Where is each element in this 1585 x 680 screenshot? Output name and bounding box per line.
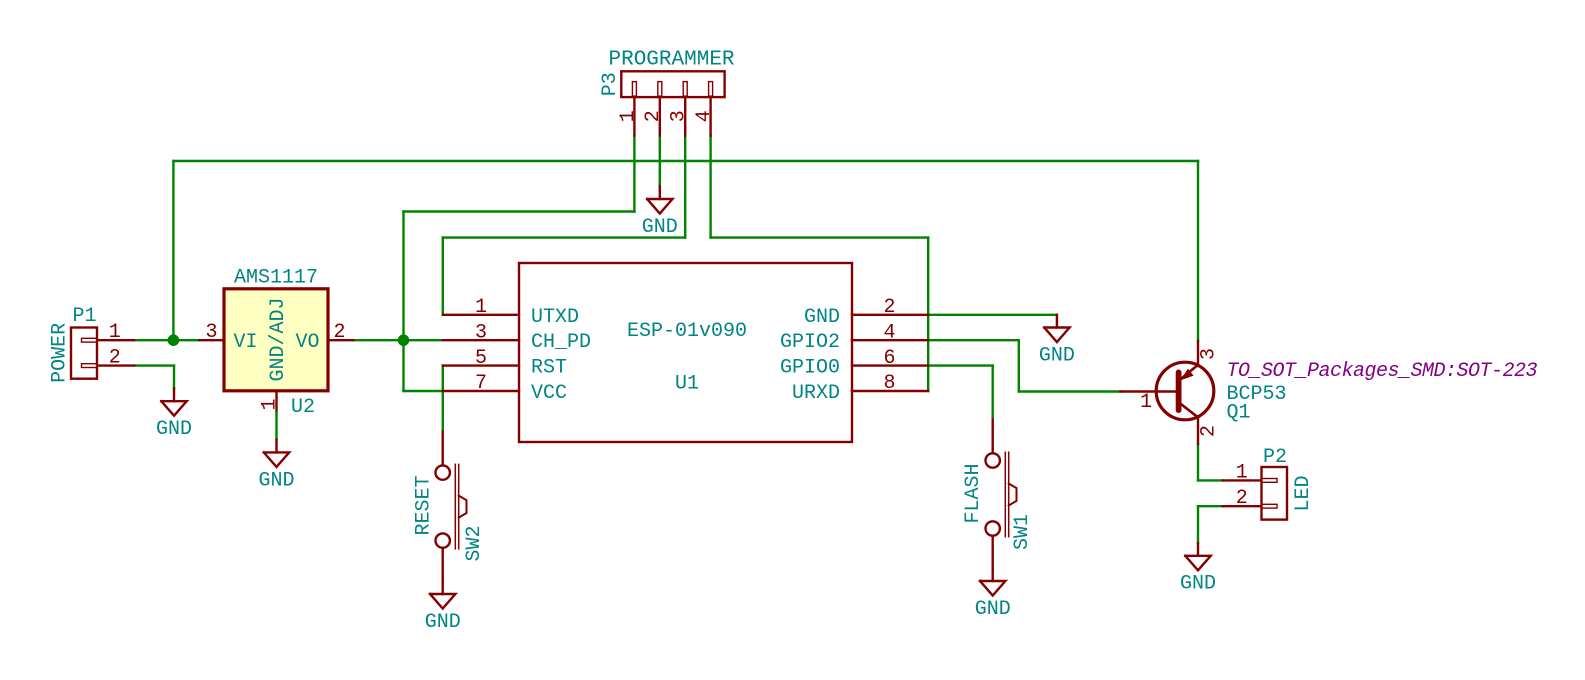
svg-text:4: 4	[693, 110, 716, 122]
svg-text:2: 2	[333, 321, 345, 344]
svg-text:FLASH: FLASH	[962, 463, 985, 523]
svg-text:VO: VO	[295, 331, 319, 354]
svg-text:GPIO2: GPIO2	[780, 331, 840, 354]
svg-text:SW2: SW2	[463, 525, 486, 561]
svg-text:3: 3	[668, 110, 691, 122]
svg-text:U1: U1	[675, 373, 699, 396]
svg-text:VI: VI	[234, 331, 258, 354]
svg-text:P1: P1	[73, 305, 97, 328]
svg-text:1: 1	[1236, 461, 1248, 484]
svg-text:GND: GND	[1180, 573, 1216, 596]
svg-text:2: 2	[1198, 425, 1221, 437]
svg-text:URXD: URXD	[792, 382, 840, 405]
svg-text:3: 3	[205, 321, 217, 344]
svg-text:6: 6	[883, 347, 895, 370]
svg-text:GND: GND	[642, 216, 678, 239]
svg-text:P2: P2	[1263, 446, 1287, 469]
svg-text:AMS1117: AMS1117	[234, 267, 318, 290]
svg-text:1: 1	[475, 296, 487, 319]
svg-text:GND: GND	[804, 306, 840, 329]
svg-text:2: 2	[1236, 487, 1248, 510]
svg-text:5: 5	[475, 347, 487, 370]
svg-text:1: 1	[259, 398, 282, 410]
svg-text:2: 2	[642, 110, 665, 122]
svg-text:GND/ADJ: GND/ADJ	[267, 297, 290, 381]
svg-text:2: 2	[883, 296, 895, 319]
svg-text:GND: GND	[425, 611, 461, 634]
svg-text:3: 3	[1198, 348, 1221, 360]
svg-text:UTXD: UTXD	[531, 306, 579, 329]
svg-text:P3: P3	[599, 72, 622, 96]
svg-text:SW1: SW1	[1011, 514, 1034, 550]
svg-text:7: 7	[475, 372, 487, 395]
svg-text:1: 1	[617, 110, 640, 122]
svg-text:POWER: POWER	[49, 323, 72, 383]
svg-text:GND: GND	[975, 598, 1011, 621]
svg-text:GND: GND	[1039, 344, 1075, 367]
svg-text:3: 3	[475, 321, 487, 344]
svg-text:Q1: Q1	[1227, 402, 1251, 425]
svg-text:RESET: RESET	[413, 475, 436, 535]
svg-text:2: 2	[109, 347, 121, 370]
svg-text:GND: GND	[258, 469, 294, 492]
svg-text:LED: LED	[1292, 475, 1315, 511]
svg-text:ESP-01v090: ESP-01v090	[627, 320, 747, 343]
svg-text:U2: U2	[291, 396, 315, 419]
svg-text:RST: RST	[531, 357, 567, 380]
svg-text:VCC: VCC	[531, 382, 567, 405]
svg-text:1: 1	[1140, 391, 1152, 414]
svg-text:1: 1	[109, 321, 121, 344]
svg-text:PROGRAMMER: PROGRAMMER	[609, 49, 735, 72]
svg-text:CH_PD: CH_PD	[531, 331, 591, 354]
svg-text:GND: GND	[156, 418, 192, 441]
svg-text:GPIO0: GPIO0	[780, 357, 840, 380]
svg-text:8: 8	[883, 372, 895, 395]
svg-text:4: 4	[883, 321, 895, 344]
svg-text:TO_SOT_Packages_SMD:SOT-223: TO_SOT_Packages_SMD:SOT-223	[1227, 360, 1538, 383]
